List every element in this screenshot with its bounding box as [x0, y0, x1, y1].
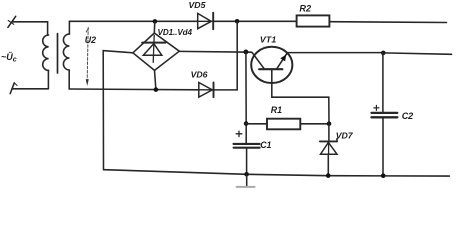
wire bottom-left from terminal to primary — [12, 88, 48, 90]
svg-text:VD1..Vd4: VD1..Vd4 — [158, 28, 193, 37]
zener diode VD7 — [320, 124, 337, 176]
svg-text:R1: R1 — [271, 105, 282, 115]
wire secondary top lead — [68, 21, 70, 34]
node dot bridge top — [153, 19, 158, 24]
wire top-left from terminal to primary — [12, 22, 48, 35]
svg-text:C2: C2 — [402, 111, 414, 121]
svg-text:VD7: VD7 — [336, 131, 354, 141]
transformer core — [57, 34, 59, 73]
svg-text:C1: C1 — [260, 140, 271, 150]
wire top rail left segment — [69, 20, 197, 22]
resistor R2 — [297, 15, 330, 26]
wire top rail right of R2 — [329, 21, 446, 24]
svg-text:R2: R2 — [299, 3, 312, 13]
wire bottom rail — [104, 170, 450, 176]
svg-text:U2: U2 — [85, 35, 96, 45]
wire bridge left corner down to bottom rail — [103, 51, 133, 170]
svg-text:VT1: VT1 — [260, 34, 277, 44]
wire top rail VD5 to R2 — [213, 20, 296, 22]
ground — [237, 174, 255, 187]
node dot C2 bottom — [381, 173, 386, 178]
node dot C1 bottom — [244, 172, 249, 177]
diode VD6 — [199, 82, 214, 97]
svg-text:~Ŭc: ~Ŭc — [1, 51, 17, 64]
wire collector from bridge right corner to VT1 — [179, 50, 251, 53]
wire base path to R1 right node — [272, 97, 329, 124]
capacitor C1 — [234, 124, 260, 174]
capacitor C2 — [372, 53, 398, 176]
wire R1 right — [300, 123, 329, 125]
node dot collector tap — [244, 50, 249, 55]
bridge rectifier VD1..VD4 — [133, 21, 179, 89]
wire VD6 to riser — [214, 89, 238, 91]
U2 measurement arrow — [86, 28, 89, 87]
transistor VT1 — [251, 47, 292, 97]
node dot VD7 bottom — [326, 173, 331, 178]
wire R1 left — [246, 123, 267, 125]
diode VD5 — [198, 13, 214, 30]
wire secondary bottom rail to VD6 — [69, 88, 199, 91]
wire drop from collector tap to R1 and C1 — [245, 52, 247, 124]
node dot R1 right / VD7 top — [327, 122, 332, 127]
input terminal arrow top — [8, 16, 16, 27]
node dot emitter output tap — [381, 51, 386, 56]
wire emitter to output — [287, 52, 383, 54]
transformer primary winding — [43, 35, 49, 70]
resistor R1 — [267, 119, 300, 130]
node dot VD5 output — [235, 19, 240, 24]
wire riser VD6 output up to top rail — [236, 21, 238, 90]
input terminal arrow bottom — [10, 83, 17, 94]
wire output right segment — [383, 53, 451, 54]
node dot R1 left — [244, 121, 249, 126]
svg-text:VD6: VD6 — [191, 70, 208, 80]
transformer secondary winding — [63, 34, 69, 70]
node dot bridge bottom — [154, 87, 159, 92]
wire primary bottom lead — [47, 70, 49, 88]
wire secondary bottom lead — [68, 70, 70, 89]
svg-text:VD5: VD5 — [189, 0, 206, 10]
